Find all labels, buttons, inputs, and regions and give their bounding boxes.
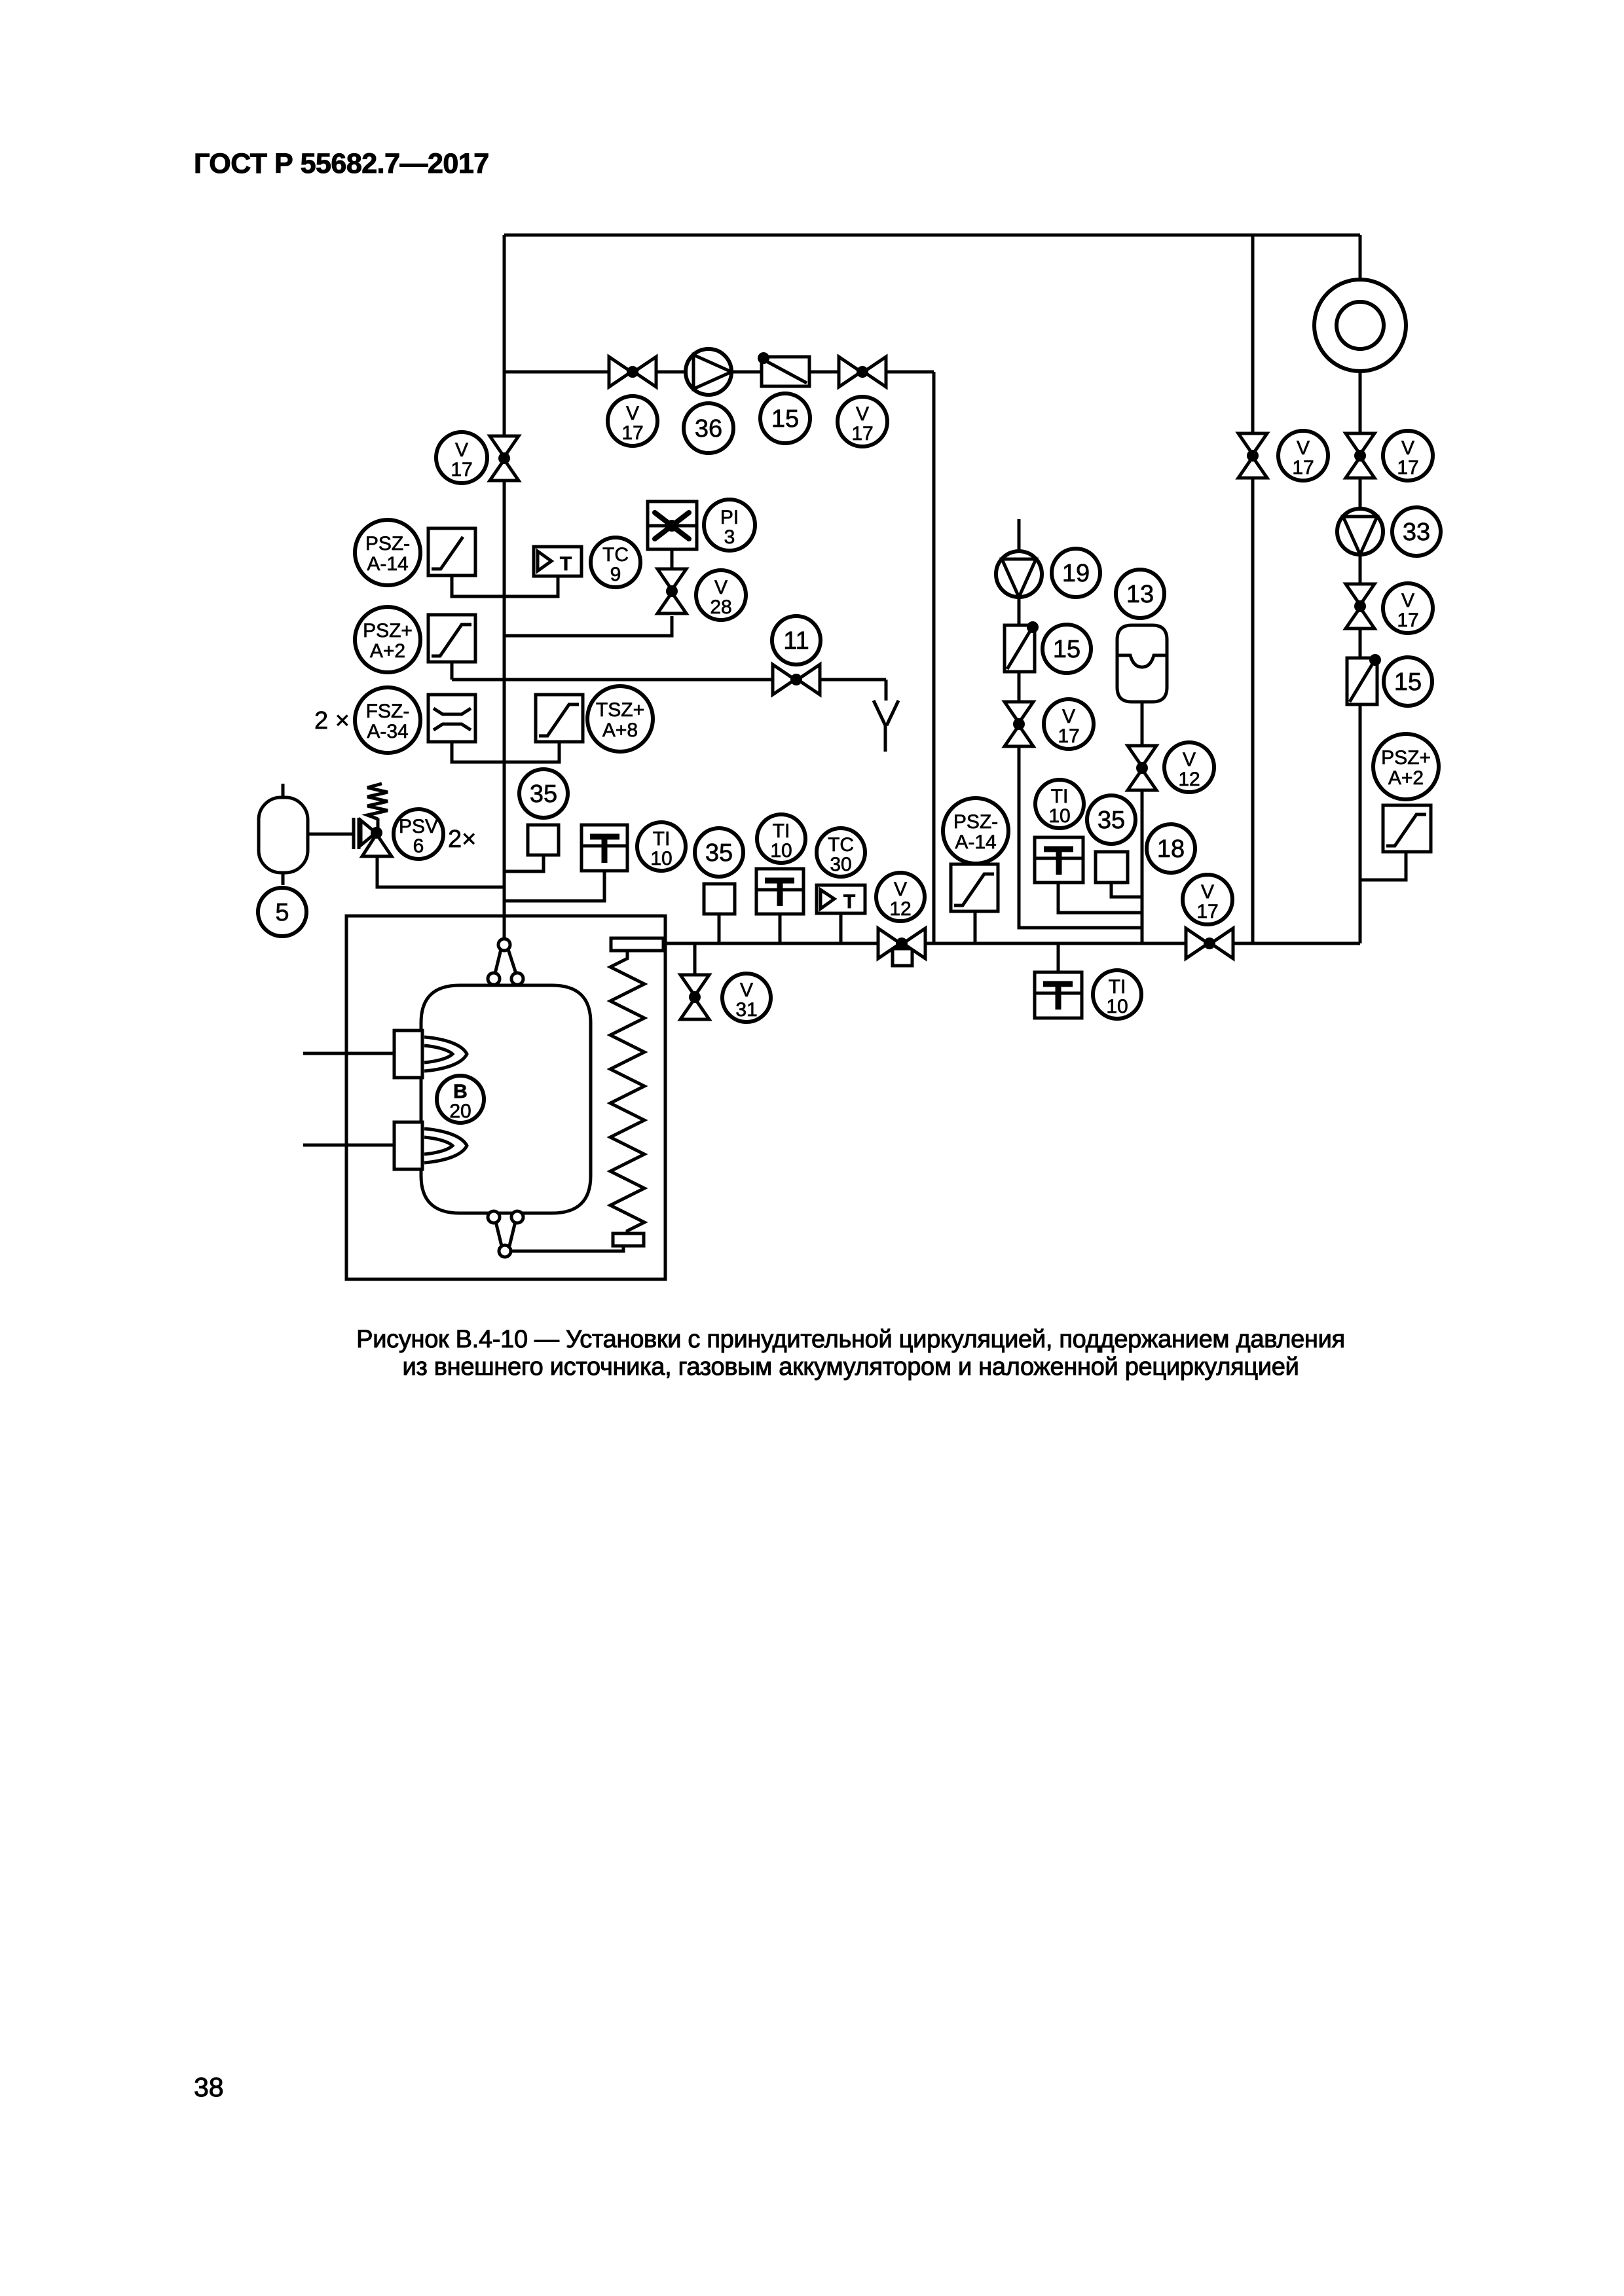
thermometer TI10 unit accumulator line	[1035, 837, 1083, 883]
check valve 15 right column	[1347, 658, 1377, 704]
svg-text:из внешнего источника, газовым: из внешнего источника, газовым аккумулят…	[402, 1353, 1299, 1381]
check valve 15 top branch	[762, 357, 809, 386]
tag circle V17 middle downcomer	[1278, 431, 1328, 481]
tag circle PSZ- A-14	[355, 520, 420, 585]
svg-text:PSV: PSV	[399, 816, 438, 837]
tag circle 13	[1116, 570, 1164, 618]
svg-text:17: 17	[1397, 610, 1418, 631]
svg-text:11: 11	[783, 627, 809, 655]
check valve 15 pump 19 line	[1005, 625, 1035, 672]
drum riser fork lines	[495, 949, 501, 974]
tag circle 35 pipe	[695, 828, 743, 877]
flow limiter unit FSZ- A-34	[428, 695, 475, 742]
svg-text:V: V	[1201, 881, 1214, 903]
recirculation pump 19	[996, 551, 1042, 597]
labels	[258, 393, 1441, 1123]
svg-text:ГОСТ Р 55682.7—2017: ГОСТ Р 55682.7—2017	[194, 148, 489, 179]
tag circle TSZ+ A+8	[587, 686, 653, 752]
svg-text:17: 17	[851, 423, 873, 445]
valve V17 pump 19 line	[1005, 702, 1033, 723]
wire 35-unit tap to riser	[504, 855, 544, 871]
tag circle 35 accumulator	[1087, 795, 1135, 844]
svg-text:31: 31	[735, 999, 757, 1021]
svg-text:B: B	[453, 1081, 468, 1102]
valve V17 top branch right	[839, 357, 861, 387]
svg-text:TI: TI	[773, 820, 790, 842]
svg-text:33: 33	[1403, 519, 1430, 546]
svg-text:18: 18	[1157, 835, 1185, 863]
tag circle PSV 6	[394, 809, 443, 859]
svg-text:10: 10	[1106, 996, 1128, 1017]
valve V17 middle downcomer	[1238, 433, 1267, 454]
tag circle 18	[1147, 824, 1195, 873]
wire burner feed upper	[303, 1052, 394, 1055]
wire 35-unit tap on accumulator line	[1111, 883, 1142, 897]
tag circle V31	[722, 974, 771, 1022]
svg-text:A-14: A-14	[955, 831, 996, 853]
thermometer TI10 unit near riser	[581, 825, 627, 871]
wire TI10 unit tap to riser	[504, 871, 604, 901]
tag circle V17 riser	[436, 432, 487, 483]
svg-text:A+2: A+2	[370, 640, 405, 662]
svg-text:38: 38	[194, 2072, 224, 2102]
svg-text:V: V	[626, 403, 639, 424]
wire PSV discharge to riser	[377, 856, 504, 887]
tag circle V17 right column lower	[1383, 583, 1433, 633]
svg-text:TSZ+: TSZ+	[596, 699, 644, 721]
svg-text:A-34: A-34	[367, 721, 408, 742]
35 actuator unit near riser	[528, 825, 559, 855]
svg-text:PSZ-: PSZ-	[953, 811, 998, 833]
economizer coil	[610, 951, 644, 1233]
tag circle 5	[258, 888, 306, 936]
wire vessel 5 top stub	[282, 784, 285, 797]
tag circle TC 30	[817, 828, 865, 877]
tag circle V17 right column upper	[1383, 431, 1433, 481]
svg-text:V: V	[455, 439, 468, 461]
page text	[194, 148, 1345, 2102]
wire PI3 tap	[671, 549, 674, 569]
tag circle 36	[684, 403, 733, 453]
tag circle 15 branch	[760, 393, 810, 443]
valve V17 right column lower	[1346, 584, 1375, 605]
tag circle PSZ+ A+2	[355, 607, 420, 672]
tag circle V17 branch left	[608, 396, 657, 446]
svg-text:TI: TI	[1051, 786, 1069, 807]
svg-text:28: 28	[710, 596, 731, 618]
svg-text:V: V	[894, 879, 907, 900]
burner flame upper	[424, 1037, 467, 1071]
svg-text:12: 12	[1178, 769, 1200, 790]
svg-text:15: 15	[1394, 668, 1422, 696]
drum bottom nozzle left	[488, 1211, 500, 1223]
svg-text:12: 12	[889, 898, 911, 920]
svg-text:17: 17	[451, 459, 472, 481]
boiler drum B20	[421, 985, 591, 1213]
tag circle V12 accumulator	[1164, 742, 1214, 792]
tag circle 11	[772, 616, 821, 665]
svg-text:V: V	[1401, 437, 1414, 459]
valve V17 top branch left	[609, 357, 631, 387]
svg-text:35: 35	[705, 839, 733, 867]
svg-text:6: 6	[413, 835, 424, 857]
wire burner feed lower	[303, 1144, 394, 1147]
svg-text:Рисунок В.4-10 — Установки с п: Рисунок В.4-10 — Установки с принудитель…	[356, 1326, 1345, 1353]
wire 35-unit tap on pipe	[718, 914, 721, 943]
svg-text:17: 17	[1058, 725, 1079, 747]
gas accumulator 13	[1117, 625, 1167, 702]
wire PSZ+ right tap	[1360, 852, 1406, 880]
svg-text:10: 10	[1048, 805, 1070, 827]
valve V12 accumulator line	[1128, 746, 1156, 767]
wire TI10 lower tap on pipe	[1057, 943, 1060, 972]
svg-text:V: V	[714, 577, 728, 598]
svg-text:V: V	[856, 403, 869, 425]
superimposed recirculation pump 33	[1337, 509, 1383, 555]
circulating pump 36	[686, 349, 731, 395]
wire drum bottom to coil	[511, 1246, 623, 1251]
svg-text:15: 15	[1053, 636, 1080, 663]
svg-text:A-14: A-14	[367, 553, 408, 575]
thermometer TI10 unit on pipe	[756, 869, 803, 914]
temperature transmitter TC9 unit	[534, 547, 581, 576]
economizer coil top support	[611, 938, 663, 951]
wire recirculation pump 19 line	[1019, 519, 1142, 928]
svg-text:T: T	[560, 553, 572, 575]
boiler enclosure	[346, 916, 665, 1279]
wire top recirculation branch	[504, 371, 934, 374]
burner box lower	[394, 1122, 422, 1169]
svg-text:V: V	[740, 979, 753, 1001]
limiter unit TSZ+ A+8	[536, 695, 583, 742]
wire PSZ- A-14 signal to TC9 unit	[452, 575, 558, 596]
temperature transmitter TC30 unit	[817, 885, 865, 913]
svg-text:17: 17	[1292, 457, 1314, 479]
wire V28 drain to riser	[504, 616, 672, 636]
tag circle PI 3	[704, 500, 755, 551]
valve V31	[680, 975, 709, 996]
svg-text:10: 10	[770, 840, 792, 862]
valve V17 on pipe	[1186, 928, 1208, 958]
svg-text:V: V	[1297, 437, 1310, 459]
wire drop to funnel	[885, 680, 888, 701]
thermometer TI10 unit below pipe	[1035, 972, 1082, 1018]
tag circle TI 10 below pipe	[1093, 970, 1141, 1019]
svg-text:35: 35	[530, 780, 557, 808]
svg-text:TC: TC	[602, 544, 629, 566]
tag circle V17 pipe	[1183, 875, 1232, 924]
safety valve PSV body	[361, 820, 376, 845]
svg-text:2 ×: 2 ×	[314, 707, 350, 735]
limiter unit PSZ+ A+2	[428, 615, 475, 662]
svg-text:5: 5	[275, 899, 289, 926]
tag circle FSZ- A-34	[355, 687, 420, 753]
valve V28	[657, 569, 686, 590]
wire branch downcomer	[932, 372, 936, 943]
tag circle PSZ+ A+2 right	[1373, 734, 1439, 799]
tag circle 19	[1052, 549, 1100, 597]
tag circle TI 10 pipe	[757, 814, 805, 863]
drum bottom nozzle right	[511, 1211, 523, 1223]
wire TI10 tap on pipe	[779, 914, 782, 943]
svg-text:TI: TI	[653, 828, 671, 850]
svg-text:35: 35	[1098, 807, 1125, 834]
drum shoulder nozzle right	[511, 973, 523, 985]
wire PSZ+ stub	[451, 662, 454, 680]
svg-text:20: 20	[449, 1101, 471, 1122]
svg-text:10: 10	[650, 848, 672, 869]
wire vessel 5 to PSV	[308, 833, 353, 836]
svg-text:2×: 2×	[448, 826, 476, 853]
valve V12 three-way on pipe	[893, 949, 912, 966]
svg-text:V: V	[1062, 706, 1075, 727]
tag circle TI 10 riser	[637, 822, 686, 871]
svg-text:17: 17	[621, 422, 643, 444]
tag circle TI 10 accumulator	[1035, 780, 1084, 828]
limiter unit PSZ+ A+2 right	[1383, 805, 1431, 852]
svg-text:T: T	[843, 891, 855, 913]
svg-text:36: 36	[695, 415, 722, 443]
wire TI10 tap on accumulator line	[1058, 883, 1142, 913]
tag circle V28	[696, 570, 746, 620]
35 actuator unit accumulator line	[1096, 852, 1128, 883]
tag circle 15 pump 19 line	[1043, 625, 1091, 673]
svg-text:17: 17	[1196, 901, 1218, 922]
burner box upper	[394, 1030, 422, 1078]
economizer coil bottom connector	[613, 1233, 644, 1246]
svg-text:FSZ-: FSZ-	[366, 701, 410, 722]
svg-text:TC: TC	[828, 834, 854, 856]
burner flame lower	[424, 1129, 467, 1163]
drain funnel	[874, 701, 885, 752]
valve 11	[773, 665, 795, 695]
wire PSZ- right tap on pipe	[974, 911, 977, 943]
svg-text:30: 30	[830, 854, 851, 875]
drum top nozzle	[498, 939, 510, 951]
safety valve PSV spring	[367, 784, 388, 819]
tag circle 15 right column	[1384, 657, 1432, 706]
svg-text:PSZ+: PSZ+	[1381, 747, 1431, 769]
limiter unit PSZ- A-14 right	[951, 864, 998, 911]
wire main riser	[503, 235, 506, 939]
svg-text:TI: TI	[1109, 976, 1126, 998]
flue gas heat exchanger	[1314, 280, 1406, 371]
expansion vessel 5	[259, 797, 308, 873]
safety valve PSV seat bars	[352, 818, 356, 849]
svg-text:V: V	[1401, 590, 1414, 611]
tag circle V17 pump 19 line	[1044, 699, 1094, 749]
wire gas accumulator line	[1141, 702, 1144, 943]
wire V31 drain stub	[693, 943, 697, 975]
tag circle 33	[1392, 507, 1441, 556]
35 actuator unit on pipe	[704, 884, 735, 914]
wire vessel 5 bottom stub	[282, 872, 285, 885]
wire TC30 tap on pipe	[840, 913, 843, 943]
valve V17 on riser	[490, 436, 519, 457]
svg-text:PSZ+: PSZ+	[363, 620, 413, 642]
svg-text:15: 15	[771, 405, 799, 433]
svg-text:9: 9	[610, 564, 621, 585]
svg-text:A+8: A+8	[602, 720, 638, 741]
tag circle B 20	[437, 1076, 484, 1123]
tag circle 35 riser	[519, 769, 568, 818]
svg-text:13: 13	[1126, 581, 1154, 608]
valve V17 right column upper	[1346, 433, 1375, 454]
tag circle PSZ- A-14 right	[943, 798, 1008, 864]
tag circle V17 branch right	[838, 397, 887, 446]
svg-text:A+2: A+2	[1388, 767, 1424, 789]
svg-text:PI: PI	[720, 507, 739, 528]
wire middle downcomer	[1251, 235, 1255, 943]
svg-text:3: 3	[724, 526, 735, 548]
drum bottom outlet nozzle	[499, 1245, 511, 1257]
pressure gauge PI3 isolation unit	[648, 501, 697, 549]
wire right column	[1359, 235, 1362, 943]
wire blowdown line through valve 11	[452, 678, 886, 682]
svg-text:17: 17	[1397, 457, 1418, 479]
drum bottom fork lines	[496, 1222, 502, 1246]
wire FSZ/TSZ connection	[452, 742, 559, 762]
svg-text:PSZ-: PSZ-	[365, 533, 410, 555]
svg-text:V: V	[1183, 749, 1196, 771]
tag circle TC 9	[591, 538, 640, 587]
wire bottom main pipe	[665, 942, 1360, 945]
limiter unit PSZ- A-14	[428, 528, 475, 575]
tag circle V12 three-way	[876, 873, 925, 921]
svg-text:19: 19	[1062, 560, 1090, 587]
drum shoulder nozzle left	[488, 973, 500, 985]
wire top header line	[504, 234, 1360, 237]
